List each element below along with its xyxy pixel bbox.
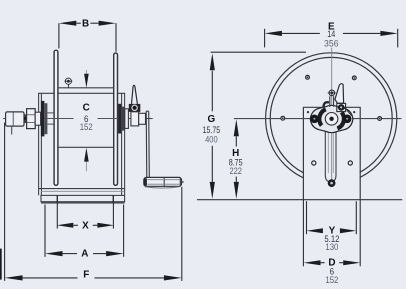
pawl block: [337, 103, 346, 111]
frame mask over disc: [304, 107, 360, 199]
inlet swivel elbow body: [6, 112, 24, 135]
left hub flange bar: [41, 101, 45, 136]
dimension A: [45, 205, 124, 260]
dimension G: [203, 52, 306, 199]
dimension F: [5, 123, 182, 281]
svg-text:B: B: [82, 18, 89, 29]
inlet swivel collar: [24, 114, 27, 123]
horizontal centerline: [234, 118, 402, 120]
left hub second bar: [45, 103, 48, 134]
axle centerline: [3, 118, 153, 120]
dimension H: [229, 119, 243, 199]
svg-text:A: A: [81, 249, 88, 260]
scan edge artifact: [0, 249, 2, 280]
hub flange plate (rounded diamond): [310, 105, 353, 132]
svg-text:G: G: [208, 114, 216, 125]
plate corner hole left: [307, 111, 309, 113]
svg-text:X: X: [82, 220, 89, 231]
svg-text:356: 356: [324, 39, 339, 50]
hub bearing: [325, 113, 338, 126]
right reel disc (edge-on): [114, 53, 118, 185]
drum top edge: [58, 87, 114, 89]
right bracket bar: [121, 107, 124, 131]
disc hole upper-right: [352, 76, 356, 80]
latch knob (side view): [129, 104, 141, 112]
pawl blade: [335, 84, 344, 104]
svg-text:C: C: [83, 103, 90, 114]
hub bolt left: [310, 115, 319, 124]
hub spring arcs: [319, 109, 344, 128]
left reel disc (edge-on): [54, 50, 58, 185]
svg-text:130: 130: [325, 242, 338, 253]
crank arm: [146, 111, 149, 177]
pawl pivot pin: [328, 90, 336, 96]
svg-text:152: 152: [325, 275, 338, 286]
outlet channel: [325, 131, 336, 182]
spring curl: [324, 102, 330, 107]
dimension C (drum dia): [80, 70, 93, 171]
disc hole upper-left: [306, 75, 310, 79]
frame right side plate: [122, 93, 125, 195]
svg-text:400: 400: [205, 135, 218, 146]
base plate: [41, 195, 125, 203]
base slot marks: [57, 195, 113, 203]
dimension E: [265, 21, 398, 49]
frame hole left: [312, 161, 316, 165]
svg-text:222: 222: [229, 166, 242, 177]
latch lifter (side view): [132, 85, 138, 104]
latch link: [346, 109, 352, 116]
crank handle grip: [144, 177, 184, 188]
outlet bolt: [328, 179, 336, 187]
pawl arm lines: [330, 96, 334, 107]
svg-text:152: 152: [80, 122, 93, 133]
crank hub end cylinder: [139, 113, 146, 124]
hub bolt right: [343, 115, 352, 124]
frame hole right: [348, 161, 352, 165]
outlet channel inner lines: [328, 131, 333, 173]
vertical centerline: [331, 48, 333, 187]
dimension Y: [307, 201, 357, 253]
axle ticks to left disc: [47, 113, 54, 124]
ground baseline: [197, 199, 402, 201]
frame bottom edge: [38, 189, 125, 192]
plate corner hole right: [353, 111, 355, 113]
frame left side plate: [39, 93, 42, 195]
inlet hex nut: [27, 109, 36, 129]
right spacer block: [125, 109, 129, 129]
inlet spacer cylinder: [35, 112, 40, 125]
reel disc inner rim: [270, 57, 392, 179]
frame top edge: [38, 92, 125, 94]
disc hole left: [281, 116, 285, 120]
frame legs (front): [303, 107, 361, 199]
dimension D: [303, 200, 360, 286]
dimension X: [57, 195, 114, 231]
crank axle stub centerline: [146, 118, 153, 120]
dimension B: [59, 18, 116, 51]
disc hole right: [378, 117, 382, 121]
right ratchet bar: [118, 104, 121, 134]
crank hub cylinder: [131, 112, 139, 126]
drum bottom edge: [58, 146, 114, 148]
svg-text:15.75: 15.75: [203, 125, 221, 135]
reel disc outer rim: [266, 53, 397, 184]
svg-text:F: F: [83, 269, 89, 280]
grease fitting on drum: [64, 78, 72, 88]
